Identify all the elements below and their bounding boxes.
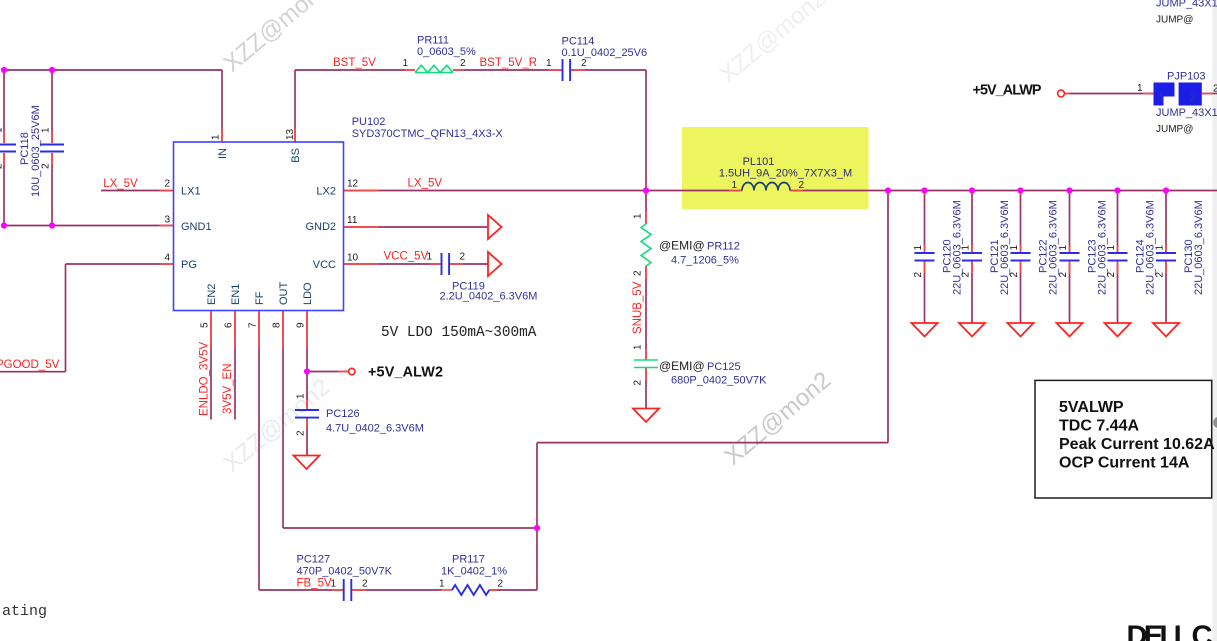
- svg-text:1: 1: [1137, 83, 1143, 94]
- svg-text:SYD370CTMC_QFN13_4X3-X: SYD370CTMC_QFN13_4X3-X: [352, 128, 504, 140]
- svg-text:PL101: PL101: [743, 156, 775, 168]
- svg-text:JUMP@: JUMP@: [1156, 15, 1193, 26]
- svg-text:GND1: GND1: [181, 221, 212, 233]
- svg-text:LX1: LX1: [181, 186, 201, 198]
- svg-text:1: 1: [296, 393, 307, 399]
- svg-text:FB_5V: FB_5V: [297, 578, 332, 590]
- svg-text:FF: FF: [254, 291, 266, 305]
- svg-text:2: 2: [1009, 272, 1020, 278]
- svg-text:1: 1: [1009, 245, 1020, 251]
- svg-text:1: 1: [1058, 245, 1069, 251]
- svg-text:TDC 7.44A: TDC 7.44A: [1059, 418, 1139, 435]
- svg-text:2: 2: [1058, 272, 1069, 278]
- svg-text:2.2U_0402_6.3V6M: 2.2U_0402_6.3V6M: [440, 291, 538, 303]
- svg-text:IN: IN: [217, 148, 229, 159]
- svg-text:1: 1: [546, 58, 552, 69]
- svg-text:2: 2: [460, 252, 466, 263]
- svg-text:LX_5V: LX_5V: [103, 178, 138, 190]
- svg-text:PJP103: PJP103: [1167, 71, 1206, 83]
- svg-text:2: 2: [460, 58, 466, 69]
- svg-text:PC126: PC126: [326, 408, 360, 420]
- svg-text:1: 1: [913, 245, 924, 251]
- svg-text:BST_5V: BST_5V: [333, 57, 376, 69]
- svg-text:VCC_5V: VCC_5V: [384, 251, 429, 263]
- svg-text:5: 5: [200, 322, 211, 328]
- svg-text:1.5UH_9A_20%_7X7X3_M: 1.5UH_9A_20%_7X7X3_M: [719, 168, 852, 180]
- svg-text:5VALWP: 5VALWP: [1059, 399, 1124, 416]
- svg-text:6: 6: [224, 322, 235, 328]
- svg-text:JUMP_43X1: JUMP_43X1: [1156, 107, 1217, 119]
- svg-text:@EMI@: @EMI@: [659, 239, 705, 253]
- svg-text:12: 12: [347, 179, 359, 190]
- svg-text:1: 1: [439, 579, 445, 590]
- svg-text:BS: BS: [290, 148, 302, 163]
- svg-text:LX2: LX2: [316, 186, 336, 198]
- svg-text:+5V_ALWP: +5V_ALWP: [973, 83, 1042, 99]
- svg-text:1: 1: [633, 213, 644, 219]
- svg-text:EN1: EN1: [230, 284, 242, 305]
- svg-text:ating: ating: [2, 603, 47, 620]
- svg-text:1: 1: [961, 245, 972, 251]
- svg-text:10U_0603_25V6M: 10U_0603_25V6M: [30, 105, 42, 197]
- svg-text:1: 1: [0, 127, 5, 133]
- svg-text:1: 1: [1155, 245, 1166, 251]
- svg-text:1: 1: [41, 127, 52, 133]
- svg-text:PR112: PR112: [707, 241, 740, 253]
- svg-text:DELL C: DELL C: [1127, 621, 1213, 641]
- svg-text:470P_0402_50V7K: 470P_0402_50V7K: [297, 566, 393, 578]
- svg-text:2: 2: [296, 430, 307, 436]
- svg-text:13: 13: [285, 128, 296, 140]
- svg-text:4.7_1206_5%: 4.7_1206_5%: [671, 255, 739, 267]
- svg-text:PG: PG: [181, 259, 197, 271]
- svg-text:PGOOD_5V: PGOOD_5V: [0, 359, 60, 371]
- svg-text:PC125: PC125: [707, 361, 741, 373]
- svg-text:1: 1: [1159, 93, 1165, 104]
- svg-text:2: 2: [633, 270, 644, 276]
- svg-text:11: 11: [347, 215, 358, 226]
- svg-text:2: 2: [41, 163, 52, 169]
- svg-text:2: 2: [799, 180, 805, 191]
- svg-text:3V5V_EN: 3V5V_EN: [222, 363, 234, 414]
- svg-text:0_0603_5%: 0_0603_5%: [417, 46, 476, 58]
- svg-text:0.1U_0402_25V6: 0.1U_0402_25V6: [562, 47, 648, 59]
- svg-text:SNUB_5V: SNUB_5V: [632, 281, 644, 334]
- svg-text:ENLDO_3V5V: ENLDO_3V5V: [199, 342, 211, 416]
- svg-text:1: 1: [427, 252, 433, 263]
- svg-text:JUMP@: JUMP@: [1156, 124, 1193, 135]
- svg-text:JUMP_43X1: JUMP_43X1: [1156, 0, 1217, 10]
- svg-text:1: 1: [732, 180, 738, 191]
- svg-text:9: 9: [296, 322, 307, 328]
- svg-text:7: 7: [248, 322, 259, 328]
- svg-text:2: 2: [498, 579, 504, 590]
- svg-text:2: 2: [1213, 84, 1217, 95]
- svg-text:GND2: GND2: [305, 221, 336, 233]
- svg-text:8: 8: [272, 322, 283, 328]
- svg-text:5V LDO 150mA~300mA: 5V LDO 150mA~300mA: [381, 325, 537, 341]
- svg-text:4.7U_0402_6.3V6M: 4.7U_0402_6.3V6M: [326, 423, 424, 435]
- svg-text:LDO: LDO: [302, 282, 314, 305]
- svg-text:OUT: OUT: [278, 282, 290, 306]
- svg-text:VCC: VCC: [313, 259, 336, 271]
- svg-text:2: 2: [362, 579, 368, 590]
- svg-text:PR111: PR111: [417, 35, 449, 47]
- svg-text:PU102: PU102: [352, 116, 386, 128]
- svg-text:EN2: EN2: [206, 284, 218, 305]
- svg-text:PC114: PC114: [562, 36, 595, 48]
- svg-text:680P_0402_50V7K: 680P_0402_50V7K: [671, 375, 767, 387]
- svg-text:BST_5V_R: BST_5V_R: [480, 57, 538, 69]
- svg-text:PR117: PR117: [452, 554, 485, 566]
- svg-text:10: 10: [347, 253, 359, 264]
- svg-text:2: 2: [961, 272, 972, 278]
- svg-text:1: 1: [403, 58, 409, 69]
- svg-text:2: 2: [581, 58, 587, 69]
- svg-text:22U_0603_6.3V6M: 22U_0603_6.3V6M: [1193, 200, 1205, 295]
- svg-text:1: 1: [1106, 245, 1117, 251]
- svg-text:2: 2: [0, 163, 5, 169]
- svg-text:@EMI@: @EMI@: [659, 359, 705, 373]
- svg-text:2: 2: [1155, 272, 1166, 278]
- svg-text:1: 1: [331, 579, 337, 590]
- svg-text:PC127: PC127: [297, 554, 331, 566]
- svg-text:1: 1: [633, 344, 644, 350]
- svg-text:2: 2: [913, 272, 924, 278]
- svg-text:LX_5V: LX_5V: [408, 178, 443, 190]
- svg-text:2: 2: [1106, 272, 1117, 278]
- svg-text:3: 3: [164, 215, 170, 226]
- svg-text:1: 1: [211, 134, 222, 140]
- svg-text:Peak Current 10.62A: Peak Current 10.62A: [1059, 436, 1215, 453]
- svg-text:2: 2: [1190, 93, 1196, 104]
- svg-text:2: 2: [633, 380, 644, 386]
- svg-text:4: 4: [164, 253, 170, 264]
- svg-text:1K_0402_1%: 1K_0402_1%: [441, 566, 507, 578]
- svg-text:+5V_ALW2: +5V_ALW2: [368, 365, 443, 381]
- svg-text:2: 2: [164, 179, 170, 190]
- svg-text:OCP Current 14A: OCP Current 14A: [1059, 455, 1190, 472]
